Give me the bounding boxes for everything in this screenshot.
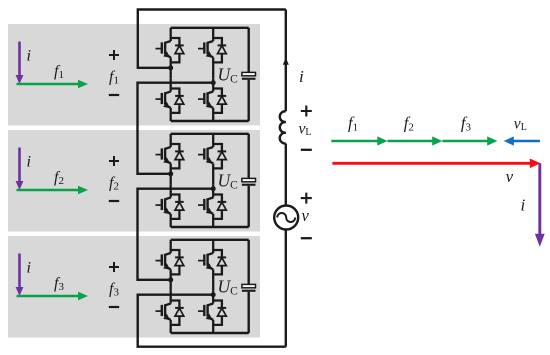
module 3 DC bus bottom rail <box>171 332 249 334</box>
label − (inductor voltage polarity) <box>301 149 312 151</box>
node module 1 + terminal junction <box>168 65 173 70</box>
label + (module 2 terminal) <box>109 156 119 166</box>
svg-text:i: i <box>27 48 31 65</box>
node module 3 + terminal junction <box>168 277 173 282</box>
module 1 left leg wire <box>170 58 172 79</box>
label + (module 3 terminal) <box>109 262 119 272</box>
svg-text:vL: vL <box>299 121 312 139</box>
transistor Q24 (lower-right IGBT with diode D24) <box>198 184 226 219</box>
transistor Q34 (lower-right IGBT with diode D34) <box>198 290 226 325</box>
phasor f2 (green vector) <box>388 136 443 145</box>
wire main AC line (right side) <box>285 10 287 112</box>
transistor Q21 (upper-left IGBT with diode D21) <box>156 134 184 169</box>
flux arrow f3 <box>17 292 89 300</box>
svg-text:i: i <box>27 154 31 171</box>
svg-text:f3: f3 <box>461 114 472 134</box>
label − (module 1 terminal) <box>109 94 119 96</box>
label − (source polarity) <box>301 237 312 239</box>
node module 2 - terminal junction <box>211 186 216 191</box>
phasor f3 (green vector) <box>442 136 497 145</box>
transistor Q32 (upper-right IGBT with diode D32) <box>198 240 226 275</box>
module 2 DC bus bottom rail <box>171 226 249 228</box>
module 3 DC bus top rail <box>171 239 249 241</box>
phasor f1 (green vector) <box>331 136 387 145</box>
label + (module 1 terminal) <box>109 50 119 60</box>
module 1 right leg wire <box>212 58 214 79</box>
svg-text:vL: vL <box>514 116 527 134</box>
node module 1 - terminal junction <box>211 80 216 85</box>
module 2 left leg lower wire <box>170 214 172 227</box>
module 2 DC bus top rail <box>171 133 249 135</box>
wire bottom loop: module 3 − terminal to AC source <box>138 295 286 347</box>
module 1 DC bus bottom rail <box>171 120 249 122</box>
current arrow i (module 1) <box>16 42 24 85</box>
module 1 DC bus top rail <box>171 27 249 29</box>
svg-text:f1: f1 <box>348 114 358 134</box>
module 3 right leg wire <box>212 270 214 291</box>
transistor Q23 (lower-left IGBT with diode D23) <box>156 184 184 219</box>
capacitor C3 (DC link, U_C) <box>242 240 256 333</box>
svg-text:i: i <box>299 67 304 86</box>
inductor L (filter inductance) <box>280 111 286 143</box>
module 3 left leg wire <box>170 270 172 291</box>
module 2 right leg wire <box>212 164 214 185</box>
svg-text:v: v <box>506 167 514 186</box>
module 1 right leg lower wire <box>212 108 214 121</box>
phasor v_L (blue vector, pointing left) <box>504 136 540 145</box>
capacitor C1 (DC link, U_C) <box>242 28 256 121</box>
module 3 right leg lower wire <box>212 320 214 333</box>
transistor Q13 (lower-left IGBT with diode D13) <box>156 78 184 113</box>
current arrow i (module 2) <box>16 148 24 191</box>
flux arrow f1 <box>17 80 89 88</box>
current arrow i (module 3) <box>16 254 24 297</box>
svg-text:f2: f2 <box>404 114 414 134</box>
label + (inductor voltage polarity) <box>301 106 312 117</box>
svg-text:i: i <box>521 196 526 215</box>
phasor i (purple vector, pointing down) <box>535 163 545 247</box>
module 3 left leg lower wire <box>170 320 172 333</box>
wire top loop: module 1 + terminal to main AC line <box>138 10 286 68</box>
wire interconnect: module 2 − to module 3 + <box>138 189 214 280</box>
wire interconnect: module 1 − to module 2 + <box>138 83 214 174</box>
phasor v (red vector) <box>332 159 540 169</box>
node module 2 + terminal junction <box>168 171 173 176</box>
svg-text:v: v <box>302 206 310 225</box>
wire between inductor and source <box>285 144 287 206</box>
AC source V (grid voltage) <box>274 206 298 230</box>
node module 3 - terminal junction <box>211 292 216 297</box>
capacitor C2 (DC link, U_C) <box>242 134 256 227</box>
module 1 left leg lower wire <box>170 108 172 121</box>
svg-text:i: i <box>27 260 31 277</box>
module 2 cell background panel <box>8 130 260 232</box>
module 2 right leg lower wire <box>212 214 214 227</box>
transistor Q14 (lower-right IGBT with diode D14) <box>198 78 226 113</box>
transistor Q33 (lower-left IGBT with diode D33) <box>156 290 184 325</box>
label − (module 2 terminal) <box>109 200 119 202</box>
current direction arrow i on main line <box>283 58 289 65</box>
wire below source <box>285 230 287 347</box>
flux arrow f2 <box>17 186 89 194</box>
transistor Q11 (upper-left IGBT with diode D11) <box>156 28 184 63</box>
label − (module 3 terminal) <box>109 306 119 308</box>
transistor Q31 (upper-left IGBT with diode D31) <box>156 240 184 275</box>
transistor Q12 (upper-right IGBT with diode D12) <box>198 28 226 63</box>
module 2 left leg wire <box>170 164 172 185</box>
transistor Q22 (upper-right IGBT with diode D22) <box>198 134 226 169</box>
module 1 cell background panel <box>8 24 260 126</box>
module 3 cell background panel <box>8 236 260 338</box>
label + (source polarity) <box>301 193 312 204</box>
